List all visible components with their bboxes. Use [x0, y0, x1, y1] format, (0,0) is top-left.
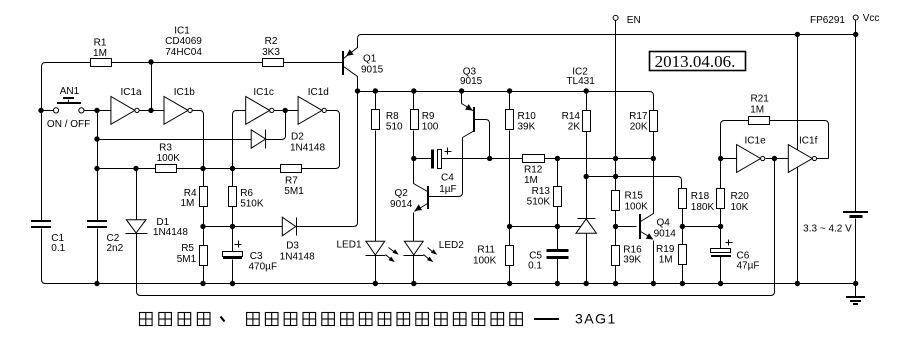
op-amp inverter IC1c: [246, 97, 270, 125]
resistor R8 510: [375, 92, 377, 110]
junction R1 right node: [148, 59, 153, 64]
junction Vcc rail: [853, 32, 858, 37]
IC IC2 TL431 shunt regulator: [578, 218, 596, 220]
resistor R18 180K: [679, 189, 687, 209]
svg-text:Q1: Q1: [363, 53, 377, 64]
svg-text:R13: R13: [532, 186, 551, 197]
wire D1 anode from y168.5: [136, 169, 138, 220]
wire IC1f output to R21 loop: [817, 158, 829, 160]
wire R14 bottom to TL431: [586, 132, 588, 219]
resistor R21 1M: [749, 117, 770, 125]
junction x97 y139: [94, 136, 99, 141]
svg-text:100K: 100K: [625, 201, 649, 212]
transistor Q1 9015: [342, 51, 344, 75]
svg-text:IC1a: IC1a: [120, 87, 142, 98]
wire left rail x41: [41, 67, 43, 221]
svg-text:470µF: 470µF: [249, 261, 278, 272]
svg-text:3.3 ~ 4.2 V: 3.3 ~ 4.2 V: [803, 223, 852, 234]
svg-text:EN: EN: [627, 15, 641, 26]
capacitor C5 0.1: [557, 227, 559, 250]
svg-text:510: 510: [386, 122, 403, 133]
battery 3.3-4.2V: [843, 211, 868, 213]
wire R8 bottom to LED1: [375, 131, 377, 242]
svg-text:R14: R14: [562, 111, 581, 122]
svg-text:R1: R1: [94, 37, 107, 48]
wire y226.5 R18 node to C6 node: [683, 226, 721, 228]
svg-text:1M: 1M: [180, 198, 194, 209]
junction IC1c out / D2 / IC1d in: [283, 108, 288, 113]
resistor R9 100: [413, 92, 415, 110]
transistor Q2 9014: [414, 159, 428, 192]
svg-text:5M1: 5M1: [284, 186, 304, 197]
resistor R11 100K: [506, 246, 514, 266]
junction R5 bottom rail: [200, 281, 205, 286]
svg-text:510K: 510K: [240, 198, 264, 209]
wire EN node to R15: [615, 159, 617, 191]
svg-text:TL431: TL431: [566, 76, 595, 87]
wire y158.5 net R12 row: [490, 158, 523, 160]
svg-text:Q4: Q4: [657, 217, 671, 228]
resistor R10 39K: [509, 92, 511, 110]
wire Q4 base: [616, 226, 637, 228]
pushbutton AN1 ON/OFF: [42, 110, 54, 112]
junction R9 / C4 / Q2 collector: [411, 156, 416, 161]
svg-text:R20: R20: [731, 191, 750, 202]
wire y176.5 to R18: [587, 177, 682, 189]
junction AN1 right / x97 rail: [94, 108, 99, 113]
svg-text:100K: 100K: [473, 256, 497, 267]
junction IC1a output / R1 feedback: [148, 108, 153, 113]
caption dash: [534, 318, 559, 320]
svg-text:R8: R8: [386, 111, 399, 122]
junction Q3 emitter rail: [459, 88, 464, 93]
wire IC1e output to IC1f input: [766, 158, 789, 160]
wire long vertical from Vcc rail down behind IC1f to ground rail: [797, 35, 799, 284]
svg-text:1N4148: 1N4148: [153, 227, 188, 238]
svg-text:9014: 9014: [654, 228, 677, 239]
date box 2013.04.06.: [650, 52, 746, 71]
wire R1 R2 base line at y62: [42, 63, 91, 67]
junction D1 top: [133, 166, 138, 171]
wire long feedback at y139 to D2: [98, 139, 252, 141]
svg-text:1M: 1M: [750, 104, 764, 115]
svg-text:R3: R3: [159, 142, 172, 153]
junction R10/R11 y226.5: [507, 224, 512, 229]
svg-text:0.1: 0.1: [528, 261, 542, 272]
junction long vertical top: [795, 32, 800, 37]
node EN terminal: [613, 15, 618, 20]
junction IC1e out / bottom return wire: [772, 156, 777, 161]
resistor R7 5M1: [281, 165, 302, 173]
diode D1 1N4148: [126, 220, 146, 233]
svg-text:IC1c: IC1c: [253, 87, 274, 98]
resistor R3 100K: [156, 165, 177, 173]
junction Q1 collector / rail: [355, 88, 360, 93]
capacitor C1 0.1: [31, 220, 51, 222]
junction LED2 bottom rail: [411, 281, 416, 286]
svg-text:Q2: Q2: [394, 188, 408, 199]
svg-text:Vcc: Vcc: [863, 13, 880, 24]
svg-text:3K3: 3K3: [262, 47, 280, 58]
svg-text:1N4148: 1N4148: [290, 142, 325, 153]
svg-text:LED1: LED1: [336, 240, 361, 251]
wire ground bottom rail: [46, 283, 856, 285]
resistor R14 2K: [586, 92, 588, 111]
junction C2 bottom rail: [94, 281, 99, 286]
svg-text:2n2: 2n2: [107, 243, 124, 254]
junction R13 bottom y226.5: [555, 224, 560, 229]
wire collector rail y91: [358, 92, 654, 111]
junction R18/R19 y226.5: [680, 224, 685, 229]
junction R17 / y158.5 / Q4 collector: [651, 156, 656, 161]
svg-text:FP6291: FP6291: [810, 15, 845, 26]
svg-text:IC1b: IC1b: [174, 87, 196, 98]
junction R15 bottom / Q4 base: [613, 224, 618, 229]
svg-text:1µF: 1µF: [439, 184, 456, 195]
junction C3 bottom rail: [230, 281, 235, 286]
svg-text:R5: R5: [181, 243, 194, 254]
wire IC1c input loop: [233, 111, 246, 169]
junction IC1c in / R6 top: [230, 166, 235, 171]
wire Vcc top rail from Q1 emitter to Vcc terminal: [344, 35, 856, 59]
wire AN1 to IC1a input: [98, 110, 111, 112]
resistor R20 10K: [720, 159, 722, 189]
svg-text:100: 100: [422, 122, 439, 133]
diode D2 1N4148: [251, 130, 265, 148]
svg-text:R18: R18: [691, 191, 710, 202]
svg-text:R9: R9: [422, 111, 435, 122]
wire y226.5 from R4 node to D3: [204, 226, 283, 228]
resistor R12 1M: [523, 155, 545, 163]
svg-text:1M: 1M: [524, 175, 538, 186]
caption Chinese title text: [140, 313, 523, 326]
junction R11 bottom rail: [507, 281, 512, 286]
svg-text:9015: 9015: [361, 64, 384, 75]
transistor Q4 9014: [641, 159, 654, 222]
wire IC1e input: [721, 158, 737, 160]
svg-text:9015: 9015: [460, 76, 483, 87]
junction R4/R5 node y226.5: [200, 224, 205, 229]
wire feedback vertical x151: [151, 63, 153, 111]
junction LED1 bottom rail: [373, 281, 378, 286]
junction R9 top: [411, 88, 416, 93]
op-amp inverter IC1f: [788, 145, 812, 173]
op-amp inverter IC1e: [737, 145, 761, 173]
svg-text:IC1d: IC1d: [308, 87, 329, 98]
svg-text:R12: R12: [524, 165, 543, 176]
svg-text:R10: R10: [518, 111, 537, 122]
junction Q3 base / C4 / R12: [487, 156, 492, 161]
svg-text:1M: 1M: [659, 255, 673, 266]
LED LED1: [366, 241, 385, 255]
junction C5 bottom rail: [555, 281, 560, 286]
svg-text:D3: D3: [286, 241, 299, 252]
wire Vcc to battery: [855, 21, 857, 212]
svg-text:47µF: 47µF: [737, 260, 760, 271]
svg-text:39K: 39K: [518, 122, 536, 133]
svg-text:510K: 510K: [527, 196, 551, 207]
svg-text:3AG1: 3AG1: [575, 311, 617, 327]
svg-text:CD4069: CD4069: [165, 36, 202, 47]
svg-text:1N4148: 1N4148: [280, 251, 315, 262]
capacitor C6 47uF electrolytic: [711, 249, 731, 253]
op-amp inverter IC1b: [164, 97, 188, 125]
svg-text:IC1f: IC1f: [799, 135, 818, 146]
wire D3 cathode up to Q1 collector rail: [297, 92, 358, 227]
wire y168.5 net R3 R7: [98, 168, 156, 170]
op-amp inverter IC1a: [111, 97, 135, 125]
resistor R17 20K: [650, 111, 658, 132]
wire R4 to R5: [203, 207, 205, 246]
svg-text:ON / OFF: ON / OFF: [47, 119, 90, 130]
svg-text:R17: R17: [629, 111, 648, 122]
junction IC1b out / R4 top: [200, 166, 205, 171]
junction y176.5 / R15 top: [613, 174, 618, 179]
wire IC1a output to IC1b input: [140, 110, 165, 112]
svg-text:IC1e: IC1e: [745, 135, 767, 146]
op-amp inverter IC1d: [298, 97, 322, 125]
svg-text:R19: R19: [656, 244, 675, 255]
wire y226.5 from R11 node to TL431 ref: [510, 226, 581, 228]
junction R8 top: [373, 88, 378, 93]
resistor R15 100K: [612, 191, 620, 211]
junction long vertical bottom: [795, 281, 800, 286]
wire x97 down to C2: [97, 111, 99, 221]
junction battery minus rail: [853, 281, 858, 286]
wire IC1d output loop down to R7: [302, 111, 340, 169]
svg-text:5M1: 5M1: [177, 254, 197, 265]
svg-text:1M: 1M: [93, 48, 107, 59]
node Vcc terminal: [853, 15, 858, 20]
junction R20 / C6 y226.5: [718, 224, 723, 229]
wire R21 feedback loop: [721, 121, 749, 159]
junction R20 top / R21 loop / IC1e input: [718, 156, 723, 161]
junction EN / y158.5: [613, 156, 618, 161]
svg-text:R21: R21: [751, 93, 770, 104]
wire IC1c output to IC1d input: [274, 110, 299, 112]
wire R18 to R19: [682, 209, 684, 245]
svg-text:2K: 2K: [568, 122, 581, 133]
svg-text:R7: R7: [285, 175, 298, 186]
svg-text:0.1: 0.1: [51, 243, 65, 254]
resistor R6 510K: [232, 169, 234, 187]
resistor R5 5M1: [200, 246, 208, 266]
junction x97 y168.5: [94, 166, 99, 171]
wire R9 bottom to C4 node: [413, 131, 415, 159]
resistor R4 1M: [203, 169, 205, 187]
junction left rail / AN1: [38, 108, 43, 113]
diode D3 1N4148: [282, 217, 295, 236]
svg-text:180K: 180K: [691, 202, 715, 213]
wire D1 cathode to long bottom return y295: [137, 159, 775, 296]
svg-text:R2: R2: [265, 36, 278, 47]
wire R10 bottom crossing to R11: [509, 131, 511, 246]
svg-text:2013.04.06.: 2013.04.06.: [655, 52, 736, 71]
wire D2 cathode up to IC1c output node: [266, 111, 286, 140]
svg-text:74HC04: 74HC04: [165, 47, 202, 58]
svg-text:C4: C4: [441, 172, 454, 183]
svg-text:AN1: AN1: [60, 86, 80, 97]
junction R12 right / R13 top: [555, 156, 560, 161]
junction C6 bottom rail: [718, 281, 723, 286]
LED LED2: [404, 241, 423, 255]
junction Q4 emitter rail: [651, 281, 656, 286]
wire IC1b output down to R4 node: [193, 111, 204, 169]
svg-text:100K: 100K: [157, 153, 181, 164]
svg-text:20K: 20K: [630, 122, 648, 133]
capacitor C4 1uF electrolytic: [414, 158, 432, 160]
wire R17 bottom to node: [653, 132, 655, 159]
svg-text:10K: 10K: [731, 202, 749, 213]
junction R10 top rail: [507, 88, 512, 93]
junction R14 / TL431 / y176.5: [584, 174, 589, 179]
transistor Q3 9015: [461, 92, 463, 104]
junction R16 bottom rail: [613, 281, 618, 286]
junction R14 top rail: [584, 88, 589, 93]
capacitor C2 2n2: [87, 220, 107, 222]
resistor R16 39K: [615, 227, 617, 246]
svg-text:LED2: LED2: [439, 240, 464, 251]
svg-text:D2: D2: [291, 131, 304, 142]
svg-text:R11: R11: [477, 245, 495, 256]
svg-text:R15: R15: [625, 190, 644, 201]
resistor R19 1M: [679, 245, 687, 265]
svg-text:9014: 9014: [390, 199, 413, 210]
junction TL431 anode rail: [584, 281, 589, 286]
resistor R2 3K3: [263, 59, 284, 67]
capacitor C3 470uF electrolytic: [232, 227, 234, 252]
svg-text:39K: 39K: [623, 254, 641, 265]
ground symbol: [855, 284, 857, 297]
resistor R13 510K: [557, 159, 559, 187]
junction R6 bottom / C3 top / D3 line: [230, 224, 235, 229]
resistor R1 1M: [91, 59, 112, 67]
wire EN vertical down to y158.5: [615, 21, 617, 159]
junction R19 bottom rail: [680, 281, 685, 286]
